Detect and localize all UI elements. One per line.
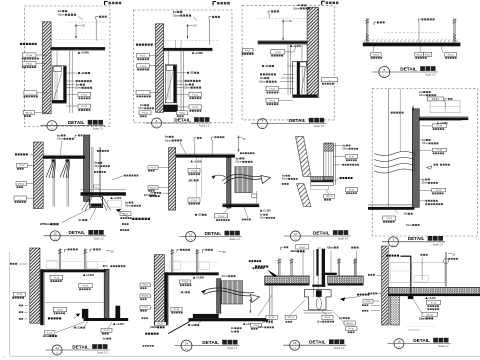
P10 right post [217, 279, 221, 314]
svg-text:0.5mm: 0.5mm [165, 138, 173, 142]
P4 hangers [366, 18, 368, 43]
P5 block with legs [90, 197, 103, 208]
P11 gypsum band right [328, 275, 364, 277]
P11 hanger rods [278, 258, 280, 275]
svg-text:6mm: 6mm [103, 336, 107, 340]
svg-text:PT-02: PT-02 [349, 328, 355, 330]
svg-text:(: ( [180, 290, 181, 294]
P3 inside label [271, 50, 285, 54]
P5 clothes hangers [52, 159, 56, 162]
svg-text:0.5mm: 0.5mm [293, 6, 301, 10]
svg-text:PT-02: PT-02 [57, 310, 63, 312]
svg-text:PT-03: PT-03 [349, 190, 355, 192]
P11 slot rods [313, 250, 315, 297]
svg-text:12: 12 [294, 232, 298, 236]
P2 cabinet box [165, 65, 177, 103]
svg-text:LED: LED [265, 64, 269, 68]
sheet frame left line [9, 252, 11, 356]
P6 bottom labels [195, 214, 197, 216]
svg-text:0.5mm: 0.5mm [342, 148, 349, 151]
svg-text:Scale 1:5: Scale 1:5 [93, 127, 104, 130]
svg-text:WD-02: WD-02 [346, 323, 353, 325]
P10 bottom level [243, 323, 245, 325]
P10 louvre hatch [221, 281, 242, 304]
P6 title [186, 232, 196, 242]
svg-text:WD-02: WD-02 [142, 296, 149, 298]
svg-text:0.5mm: 0.5mm [74, 86, 82, 90]
svg-text:Scale 1:1: Scale 1:1 [227, 347, 238, 350]
P1 right labels [78, 72, 80, 74]
P7 shelf bands [311, 177, 334, 181]
P9 left outside labels [10, 263, 12, 265]
svg-text:PT-03: PT-03 [26, 55, 32, 57]
svg-text:PT-03: PT-03 [150, 167, 156, 169]
P11 title [290, 340, 300, 350]
P3 cabinet box mirrored [293, 61, 307, 97]
P10 bottom thick band [193, 314, 219, 318]
P6 wall hatch [169, 148, 176, 211]
P10 ghost boxes [170, 261, 181, 269]
P7 wall hatched band upper [296, 137, 312, 177]
svg-text:1:5: 1:5 [54, 239, 57, 241]
P3 wall hatch right [307, 7, 318, 97]
P5 left labels [15, 153, 17, 155]
tianhua adjust label P5 [132, 218, 134, 220]
P12 corner black piece [408, 294, 414, 299]
svg-text:+1.350: +1.350 [263, 210, 271, 213]
svg-text:PT-02: PT-02 [81, 95, 87, 97]
P4 furring ticks above band [364, 39, 458, 42]
P11 black L bracket [322, 273, 325, 287]
P1 node-adjust flag [104, 1, 106, 5]
svg-text:WD-03: WD-03 [326, 196, 333, 198]
P6 ceiling thick band [176, 155, 235, 158]
P12 cancel fire label [386, 255, 388, 257]
P10 left outside labels [140, 283, 150, 287]
svg-text:AD6mm: AD6mm [327, 245, 335, 249]
P1 left label boxes [23, 53, 37, 57]
P2 node-adjust flag [212, 1, 214, 5]
P9 level mark [83, 274, 85, 276]
P12 boxes right [426, 300, 440, 304]
svg-text:0.5mm: 0.5mm [421, 181, 428, 185]
P9 ceiling thick band [42, 269, 106, 272]
P5 bottom-left small labels [120, 212, 131, 216]
svg-text:DETAIL: DETAIL [69, 230, 86, 235]
P5 right inner labels [97, 150, 99, 152]
P9 ghost curtain boxes [47, 260, 58, 269]
svg-text:1.2mm: 1.2mm [290, 249, 298, 253]
svg-text:+0.350: +0.350 [114, 197, 122, 200]
svg-text:LED: LED [191, 323, 195, 327]
P11 gypsum band left [265, 275, 310, 277]
P10 wavy arrow [202, 288, 254, 293]
svg-text:1:5: 1:5 [398, 347, 401, 349]
P3 dashed ceiling line [258, 17, 307, 19]
svg-text:10mm: 10mm [317, 320, 322, 323]
P7 frame vertical section [324, 143, 334, 180]
P1 level mark +2.800 [78, 51, 80, 53]
P6 bottom level mark [260, 209, 262, 211]
svg-text:LED: LED [81, 71, 85, 75]
svg-text:DETAIL: DETAIL [413, 338, 430, 343]
svg-text:0.5mm: 0.5mm [422, 141, 429, 145]
P3 left boxes lower [266, 87, 279, 91]
svg-text:DETAIL: DETAIL [72, 344, 89, 349]
svg-text:0.5mm: 0.5mm [419, 93, 427, 97]
svg-text:DETAIL: DETAIL [309, 340, 326, 345]
svg-text:PT-03: PT-03 [140, 56, 146, 58]
P7 cancel fire board label [340, 177, 342, 179]
P7 wall hatched band lower [297, 184, 312, 207]
svg-text:0.5mm: 0.5mm [282, 178, 289, 181]
P3 ceiling thick band [258, 41, 307, 44]
P3 right outside label [322, 78, 338, 82]
P9 interior [45, 302, 105, 304]
P6 wavy air arrows [212, 175, 226, 177]
svg-text:PT-02: PT-02 [386, 218, 392, 220]
svg-text:1:5: 1:5 [185, 349, 188, 351]
P1 dim 50 [75, 24, 77, 39]
svg-text:PS-03: PS-03 [448, 54, 455, 56]
P9 wall hatch [30, 248, 40, 323]
svg-text:1:5: 1:5 [392, 245, 395, 247]
P2 level mark [192, 52, 194, 54]
P4 below leaders and boxes [372, 46, 374, 52]
svg-text:DETAIL: DETAIL [289, 118, 306, 123]
panel P3 dashed border [242, 6, 334, 120]
P2 dim 50 [187, 24, 189, 39]
P1 left label wood text [20, 43, 22, 45]
panel P2 dashed border [134, 10, 232, 123]
svg-text:PT-03: PT-03 [436, 190, 442, 192]
P3 curtain bracket [267, 11, 269, 14]
svg-text:PT-03: PT-03 [83, 286, 89, 288]
P11 top labels [280, 247, 282, 250]
svg-text:PT-02: PT-02 [179, 113, 185, 115]
P8 wall top arrow [412, 106, 414, 111]
svg-text:0.5mm: 0.5mm [94, 165, 101, 168]
svg-text:9mm: 9mm [235, 156, 240, 160]
P7 title [290, 231, 300, 241]
svg-text:DETAIL: DETAIL [68, 120, 85, 125]
svg-text:13: 13 [55, 346, 59, 350]
svg-text:PT-02: PT-02 [269, 89, 275, 91]
svg-text:1:5: 1:5 [155, 126, 158, 128]
P1 title [47, 121, 57, 131]
svg-text:XX-02: XX-02 [299, 247, 306, 249]
svg-text:6mm: 6mm [231, 330, 235, 333]
svg-text:WD-02: WD-02 [426, 315, 433, 317]
svg-text:10: 10 [54, 232, 58, 236]
svg-text:9mm: 9mm [422, 138, 426, 142]
svg-text:Scale 1:5: Scale 1:5 [97, 352, 108, 355]
P10 title [181, 340, 192, 351]
P3 LED label [262, 65, 264, 67]
P8 bottom labels [383, 216, 396, 220]
P3 dim 50 [282, 20, 284, 41]
P7 WD box [324, 194, 335, 198]
svg-text:22*40mm: 22*40mm [40, 222, 51, 226]
svg-text:DETAIL: DETAIL [400, 66, 417, 71]
svg-text:12mm: 12mm [144, 194, 149, 197]
P5 right outer labels [124, 175, 126, 177]
P2 ceiling thick band [163, 48, 213, 51]
P12 title [394, 339, 404, 349]
svg-text:1:5: 1:5 [293, 348, 296, 350]
svg-text:PT-02: PT-02 [142, 307, 148, 309]
svg-text:WD-05: WD-05 [26, 113, 33, 115]
svg-text:Scale 1:5: Scale 1:5 [338, 238, 349, 241]
P9 bottom thick band [84, 318, 129, 321]
P9 top bracket labels [64, 249, 66, 252]
svg-text:PT-03: PT-03 [275, 52, 281, 54]
P3 node-adjust flag [321, 1, 323, 5]
svg-text:0.5mm: 0.5mm [58, 13, 66, 17]
svg-text:PT-02: PT-02 [269, 100, 275, 102]
P8 level mark [437, 122, 439, 124]
svg-text:+1.350: +1.350 [194, 160, 202, 163]
svg-text:0.5mm: 0.5mm [183, 86, 191, 90]
svg-text:PS-02: PS-02 [123, 214, 130, 216]
svg-text:PT-03: PT-03 [182, 282, 188, 284]
P10 cancel fire top-right [249, 260, 251, 262]
panel P8 dashed border [372, 89, 477, 237]
P2 right labels [187, 72, 189, 74]
P10 level mark [193, 276, 195, 278]
P8 left vertical thin lines [388, 89, 390, 208]
P5 wall hatch [34, 142, 44, 209]
svg-text:PT-02: PT-02 [17, 294, 23, 296]
svg-text:LED: LED [190, 71, 194, 75]
P9 bottom level [113, 323, 115, 325]
svg-text:PT-02: PT-02 [142, 113, 148, 115]
svg-text:0.5mm: 0.5mm [138, 107, 145, 110]
svg-text:DETAIL: DETAIL [174, 117, 191, 122]
svg-text:Scale 1:2: Scale 1:2 [438, 345, 449, 348]
P6 inside level mark [191, 160, 193, 162]
svg-text:0.5mm: 0.5mm [125, 205, 132, 208]
P12 left small labels [368, 274, 370, 276]
P10 top bracket labels [176, 250, 178, 253]
svg-text:Scale 1:5: Scale 1:5 [425, 74, 436, 77]
P5 shelf thick band [81, 192, 126, 196]
P11 bottom labels [266, 315, 277, 319]
svg-text:RC-02: RC-02 [157, 323, 164, 325]
P10 interior labels [180, 280, 191, 284]
P9 top hangers [58, 249, 60, 270]
svg-text:+2.800: +2.800 [86, 273, 95, 277]
P2 hanger wires [175, 41, 177, 48]
P9 cancel fire text [48, 317, 50, 319]
P2 curtain bracket [208, 17, 210, 20]
svg-text:PT-03: PT-03 [140, 66, 146, 68]
svg-text:9mm: 9mm [404, 212, 408, 216]
P5 vertical board [84, 135, 90, 202]
svg-text:(: ( [188, 178, 189, 182]
P9 dark blocking pieces [82, 309, 88, 319]
svg-text:SC-02: SC-02 [325, 317, 332, 319]
svg-text:Scale 1:2: Scale 1:2 [334, 347, 345, 350]
P12 floor band [389, 286, 480, 288]
svg-text:+2.800: +2.800 [196, 276, 205, 280]
svg-text:1.2mm: 1.2mm [150, 325, 158, 329]
svg-text:WD-02: WD-02 [287, 317, 294, 319]
P2 title [152, 118, 162, 128]
P11 cancel fire right [357, 294, 359, 296]
P6 louvre hatch block [235, 167, 252, 193]
P4 bracket labels [373, 22, 375, 25]
svg-text:+2.800: +2.800 [293, 44, 302, 48]
svg-text:ST-02: ST-02 [269, 317, 275, 319]
svg-text:PT-03: PT-03 [191, 200, 197, 202]
svg-text:9mm: 9mm [421, 177, 425, 181]
svg-text:PT-03: PT-03 [437, 150, 443, 152]
P9 right post [104, 269, 109, 318]
P12 left wall strip [382, 246, 389, 325]
svg-text:DETAIL: DETAIL [313, 230, 330, 235]
P8 equipment ghost box [430, 101, 460, 113]
svg-text:+2.350: +2.350 [116, 323, 124, 326]
svg-text:0.5mm: 0.5mm [259, 80, 267, 84]
P5 shelf level mark [111, 197, 113, 199]
svg-text:): ) [184, 290, 185, 294]
svg-text:Scale 1:5: Scale 1:5 [314, 125, 325, 128]
svg-text:PT-03: PT-03 [349, 157, 355, 159]
P11 fixture stepped profile [304, 289, 331, 291]
svg-text:9.5mm: 9.5mm [406, 223, 413, 227]
P1 upper dashed ceiling lines [68, 21, 106, 23]
P3 title [257, 119, 267, 129]
P8 right label column [432, 124, 446, 128]
svg-text:PT-02: PT-02 [245, 50, 251, 52]
svg-text:9.5mm: 9.5mm [222, 274, 229, 278]
P6 vertical post [227, 158, 231, 208]
svg-text:+2.800: +2.800 [195, 51, 204, 55]
svg-text:2mm: 2mm [150, 191, 154, 195]
P4 title [379, 67, 390, 78]
svg-text:WD-03: WD-03 [150, 187, 157, 189]
svg-text:0.5mm: 0.5mm [173, 14, 181, 18]
P11 left glass partition [269, 286, 271, 325]
P12 curtain rod line [445, 252, 447, 287]
P12 ghost boxes above floor [390, 263, 445, 283]
svg-text:Scale 1:5: Scale 1:5 [199, 125, 210, 128]
P10 dim at louvre [249, 299, 251, 313]
P4 thick ceiling band [363, 43, 461, 46]
P1 curtain box bracket label [95, 16, 97, 19]
P3 right texts [260, 73, 262, 75]
P8 curtain wavy lines [374, 152, 414, 156]
svg-text:0.5mm: 0.5mm [260, 217, 266, 220]
svg-text:11: 11 [189, 232, 192, 236]
svg-text:0.5mm: 0.5mm [258, 326, 265, 329]
svg-text:ST-02: ST-02 [431, 302, 437, 304]
P4 hanger springs [366, 34, 369, 41]
svg-text:PT-02: PT-02 [26, 64, 32, 66]
sheet frame bottom line [10, 355, 480, 357]
P6 left outside boxes [148, 166, 158, 170]
P12 ghost dashes bottom [406, 325, 437, 327]
svg-text:): ) [192, 178, 193, 182]
svg-text:Scale 1:2: Scale 1:2 [433, 243, 444, 246]
svg-text:+2.800: +2.800 [81, 51, 90, 55]
P2 wall hatch [156, 24, 164, 113]
svg-text:LED: LED [77, 325, 81, 329]
svg-text:PT-03: PT-03 [218, 216, 224, 218]
svg-text:PT-03: PT-03 [437, 125, 443, 127]
P8 title [388, 237, 398, 247]
P2 left boxes [137, 53, 150, 57]
svg-text:DETAIL: DETAIL [205, 231, 222, 236]
svg-text:Scale 1:5: Scale 1:5 [229, 238, 240, 241]
P5 ceiling thick band [43, 156, 85, 159]
svg-text:1.2mm: 1.2mm [419, 316, 427, 320]
P12 wood label top [421, 254, 423, 256]
svg-text:PT-02: PT-02 [365, 301, 371, 303]
P3 level mark [290, 45, 292, 47]
P8 wall hatch [412, 109, 419, 208]
P10 top hangers [171, 249, 173, 272]
P6 bottom thick line [223, 204, 260, 207]
svg-text:PT-02: PT-02 [19, 165, 25, 167]
P9 title [52, 345, 62, 355]
P4 dashed ceiling line above [384, 32, 441, 34]
svg-text:DETAIL: DETAIL [202, 340, 219, 345]
P9 bottom labels [74, 327, 76, 329]
P10 wall hatch [154, 255, 164, 325]
P8 bottom thick line [368, 207, 414, 210]
P11 cancel fire left [255, 265, 257, 267]
svg-text:1.2mm: 1.2mm [42, 334, 50, 338]
svg-text:0.5mm: 0.5mm [235, 160, 243, 164]
svg-text:PS-03: PS-03 [373, 54, 380, 56]
svg-text:PT-02: PT-02 [142, 285, 148, 287]
svg-text:2mm: 2mm [262, 320, 266, 323]
svg-text:14: 14 [185, 341, 189, 345]
svg-text:16: 16 [397, 339, 401, 343]
svg-text:LED: LED [198, 213, 202, 217]
svg-text:0.5mm: 0.5mm [57, 137, 65, 141]
svg-text:1:5: 1:5 [294, 239, 297, 241]
svg-text:15: 15 [293, 341, 297, 345]
P10 ceiling thick band [166, 272, 219, 275]
P2 dashed ceiling line [164, 40, 221, 42]
svg-text:DETAIL: DETAIL [408, 236, 425, 241]
P9 right top labels [103, 265, 105, 267]
P6 interior labels [188, 168, 200, 172]
svg-text:Scale 1:5: Scale 1:5 [93, 237, 104, 240]
P1 wall hatch [43, 22, 52, 114]
svg-text:1:5: 1:5 [261, 127, 264, 129]
svg-text:PT-08: PT-08 [192, 94, 198, 96]
svg-text:PT-02: PT-02 [81, 106, 87, 108]
P10 bottom labels [188, 324, 190, 326]
P1 ceiling thick band [51, 47, 105, 50]
svg-text:WD-02: WD-02 [18, 184, 25, 186]
svg-text:1:5: 1:5 [56, 353, 59, 355]
P8 wood text left [391, 112, 393, 114]
P3 outside-left label [243, 49, 254, 53]
P12 floor level mark [425, 297, 427, 299]
svg-text:PT-02: PT-02 [54, 277, 60, 279]
svg-text:1:5: 1:5 [383, 76, 386, 78]
P5 title [50, 231, 60, 241]
svg-text:1:5: 1:5 [189, 240, 192, 242]
P8 ceiling thick band [419, 117, 468, 120]
svg-text:PT-02: PT-02 [192, 107, 198, 109]
svg-text:1:5: 1:5 [51, 129, 54, 131]
